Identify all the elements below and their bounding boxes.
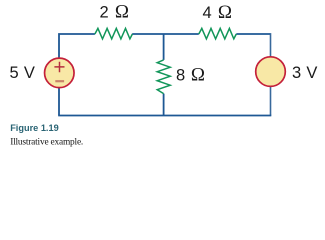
wire middle rail lower (163, 94, 165, 116)
svg-text:8 Ω: 8 Ω (176, 65, 205, 86)
svg-text:5 V: 5 V (10, 64, 36, 82)
resistor 2ohm zigzag (95, 28, 132, 39)
wire top-middle segment (132, 33, 199, 35)
resistor 8ohm zigzag (157, 60, 170, 94)
wire middle rail upper (163, 34, 165, 60)
wire right rail upper (270, 33, 272, 57)
voltage source 3V circle (256, 57, 286, 87)
wire bottom segment (58, 115, 271, 117)
wire top-right segment (236, 33, 270, 35)
svg-text:2 Ω: 2 Ω (100, 2, 130, 23)
wire right rail lower (270, 86, 272, 116)
svg-text:3 V: 3 V (292, 64, 318, 82)
svg-text:Illustrative example.: Illustrative example. (10, 137, 83, 147)
resistor 4ohm zigzag (199, 28, 237, 39)
svg-text:Figure 1.19: Figure 1.19 (10, 123, 59, 133)
wire top-left segment (59, 34, 95, 58)
svg-text:4 Ω: 4 Ω (203, 2, 233, 23)
voltage source 5V circle (45, 58, 75, 88)
voltage source 5V plus sign (54, 62, 64, 73)
voltage source 5V minus sign (55, 80, 64, 82)
wire left rail lower (58, 87, 60, 116)
